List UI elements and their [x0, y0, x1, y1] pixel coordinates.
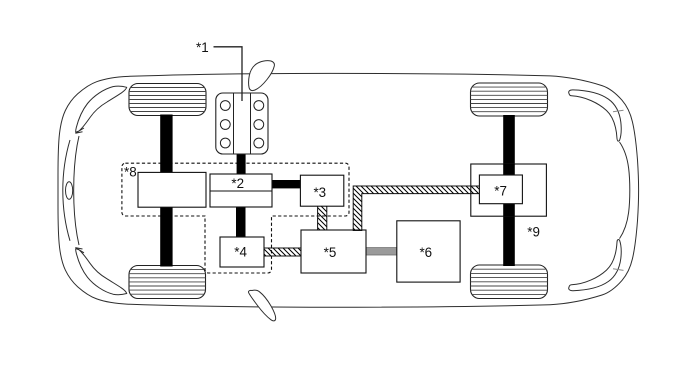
engine to *2 black shaft	[237, 152, 246, 175]
box *3	[300, 175, 343, 206]
svg-text:*8: *8	[124, 165, 137, 180]
rear lower pillar swoosh	[569, 239, 621, 290]
svg-text:*4: *4	[234, 245, 247, 260]
leader line *1	[214, 47, 243, 101]
bottom side mirror	[248, 290, 275, 321]
gray shaft *5 to *6	[366, 248, 398, 255]
front lower pillar swoosh	[75, 248, 126, 295]
box *8 (front differential)	[138, 172, 206, 207]
box *5	[301, 230, 366, 273]
*2 to *4 black shaft	[236, 207, 246, 239]
box *6	[397, 221, 460, 282]
svg-text:*5: *5	[324, 245, 337, 260]
wheel front-left	[129, 84, 206, 116]
hatched shaft *4 to *5	[264, 248, 302, 256]
rear panel tick lower	[613, 269, 624, 271]
box *7 inner	[479, 175, 522, 204]
rear tailgate inner line	[620, 142, 630, 239]
wheel rear-right	[471, 265, 548, 299]
front axle shaft	[160, 115, 172, 267]
hatched shaft *3 to *5	[318, 206, 327, 232]
engine *1 block	[216, 93, 268, 154]
svg-text:*2: *2	[231, 176, 244, 191]
rear axle shaft	[503, 115, 515, 266]
propeller shaft (hatched L)	[353, 186, 479, 231]
box *7 outer (rear differential housing)	[471, 164, 547, 216]
wheel rear-left	[471, 83, 548, 116]
top side mirror	[249, 61, 275, 91]
rear axle over *7 outer	[503, 164, 515, 216]
car body outer outline	[58, 73, 639, 307]
svg-text:*6: *6	[419, 245, 432, 260]
front bumper crease line	[63, 140, 70, 241]
front hood inner line	[74, 136, 79, 245]
rear panel tick upper	[613, 110, 624, 112]
box *2	[210, 174, 272, 207]
svg-text:*3: *3	[313, 185, 326, 200]
wheel front-right	[129, 266, 206, 299]
svg-text:*9: *9	[527, 224, 540, 239]
front upper pillar swoosh	[75, 86, 126, 133]
rear upper pillar swoosh	[569, 90, 621, 141]
dashed group outline *8	[122, 163, 349, 273]
svg-text:*7: *7	[494, 184, 507, 199]
svg-text:*1: *1	[196, 40, 209, 55]
front emblem ellipse	[66, 182, 73, 200]
box *4	[220, 237, 264, 267]
*2 to *3 black shaft	[271, 180, 301, 188]
